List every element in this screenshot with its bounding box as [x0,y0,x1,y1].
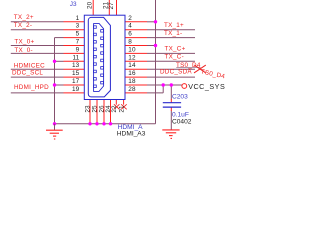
junction left ground corner [53,122,56,125]
wire pin5 to ground bus [55,37,64,39]
wire capacitor bottom to ground [170,111,172,130]
no-connect X on stub 22 [114,104,120,109]
wire pin28 horizontal [147,92,163,94]
wire TX_1- pin6 [147,37,195,39]
pin stub 14 [125,68,147,70]
wire TX_2+ pin1 [11,21,64,23]
pin stub 22 bottom no-connect [115,100,117,105]
svg-text:17: 17 [72,78,80,85]
svg-text:6: 6 [128,31,132,38]
HDMI receptacle inner slot [94,24,104,92]
pin stub 9 [64,52,85,54]
junction pin28 riser on VCC row [162,83,165,86]
pin stub 27 top [116,0,118,15]
wire pin2 to shield bus [147,21,156,23]
junction bottom stub 25 [95,122,98,125]
svg-text:TX_1-: TX_1- [164,30,182,37]
HDMI receptacle outer outline [88,17,110,97]
svg-text:18: 18 [128,78,136,85]
pin stub 20 top [92,0,94,15]
wire TX_C+ pin10 [147,52,195,54]
wire HDMI_HPD pin19 [11,92,64,94]
svg-text:C203: C203 [172,94,188,101]
capacitor C203 plates [163,102,181,104]
junction bottom stub 24 [109,122,112,125]
pin stub 10 [125,52,147,54]
svg-text:0.1uF: 0.1uF [172,111,189,118]
svg-text:16: 16 [128,70,136,77]
svg-text:TX_0-: TX_0- [14,47,32,54]
svg-text:2: 2 [128,15,132,22]
HDMI contact teeth right column [101,30,104,84]
wire TX_0- pin9 [11,52,64,54]
pin stub 12 [125,60,147,62]
wire TX_2- pin3 [11,29,64,31]
junction pin8 shield bus [154,44,157,47]
svg-text:1: 1 [76,15,80,22]
svg-text:7: 7 [76,39,80,46]
wire right shield bus vertical [155,0,157,124]
wire DDC_SDA pin16 [147,76,195,78]
pin stub 15 [64,76,85,78]
svg-text:13: 13 [72,62,80,69]
wire pin11 to ground bus [55,60,64,62]
wire pin8 to shield bus [147,45,156,47]
pin stub 24 bottom [110,100,112,124]
crossed-out marker X [194,65,206,73]
wire TX_C- pin12 [147,60,195,62]
junction bottom stub 26 [102,122,105,125]
pin stub 1 [64,21,85,23]
svg-text:15: 15 [72,70,80,77]
svg-text:28: 28 [128,86,136,93]
svg-text:20: 20 [86,1,93,9]
svg-text:23: 23 [85,105,92,113]
svg-text:TX_1+: TX_1+ [164,22,184,29]
pin stub 8 [125,45,147,47]
pin stub 23 bottom [89,100,91,124]
pin stub 17 [64,84,85,86]
pin stub 5 [64,37,85,39]
wire pin17 to ground bus [55,84,64,86]
svg-text:TX_2-: TX_2- [14,22,32,29]
svg-text:27: 27 [108,2,115,10]
svg-text:10: 10 [128,46,136,53]
wire left ground stem [54,124,56,130]
wire bottom ground horizontal [55,123,156,125]
pin stub 26 bottom [103,100,105,124]
svg-text:HDMI_HPD: HDMI_HPD [14,84,49,91]
junction pin11 bus [53,60,56,63]
pin stub 3 [64,29,85,31]
connector J3 body [84,15,125,99]
HDMI contact teeth left column [94,26,97,88]
svg-text:TX_0+: TX_0+ [14,39,34,46]
junction bottom stub 23 [88,122,91,125]
svg-text:TX_C+: TX_C+ [165,46,186,53]
svg-text:5: 5 [76,31,80,38]
wire left ground bus vertical [54,38,56,124]
wire TX_1+ pin4 [147,29,195,31]
svg-text:14: 14 [128,62,136,69]
wire HDMICEC pin13 [11,68,64,70]
svg-text:DDC_SCL: DDC_SCL [12,69,43,76]
capacitor C203 leads [170,99,172,103]
svg-text:4: 4 [128,23,132,30]
no-connect X on last bottom stub [121,104,127,109]
pin stub 2 [125,21,147,23]
pin stub 21 top [108,0,110,15]
ground symbol left [46,130,63,139]
wire TX_0+ pin7 [11,45,64,47]
wire pin28 riser to VCC row [162,85,164,93]
wire capacitor top lead [170,85,172,100]
pin stub 4 [125,29,147,31]
pin stub 13 [64,68,85,70]
pin stub bottom right no-connect [123,100,125,105]
svg-text:12: 12 [128,54,136,61]
svg-text:C0402: C0402 [172,118,192,125]
svg-text:3: 3 [76,23,80,30]
svg-text:25: 25 [92,105,99,113]
VCC_SYS power symbol circle [182,84,187,89]
svg-text:8: 8 [128,39,132,46]
svg-text:J3: J3 [70,1,77,8]
junction capacitor lead on VCC row [170,83,173,86]
pin stub 11 [64,60,85,62]
svg-text:22: 22 [111,105,118,113]
strikethrough on TS0_D4 label [176,66,200,68]
wire TS0_D4 pin14 [147,68,195,70]
pin stub 16 [125,76,147,78]
pin stub 28 [125,92,147,94]
junction pin2 shield bus [154,20,157,23]
svg-text:9: 9 [76,46,80,53]
svg-text:HDMI_A3: HDMI_A3 [117,130,146,137]
svg-text:TX_C-: TX_C- [165,54,184,61]
svg-text:VCC_SYS: VCC_SYS [188,82,225,91]
svg-text:19: 19 [72,86,80,93]
pin stub 6 [125,37,147,39]
pin stub 19 [64,92,85,94]
svg-text:DDC_SDA: DDC_SDA [160,68,192,75]
junction pin17 bus [53,83,56,86]
wire VCC pin18 [147,84,182,86]
svg-text:21: 21 [118,105,125,113]
wire DDC_SCL pin15 [11,76,64,78]
svg-text:11: 11 [72,54,79,61]
pin stub 7 [64,45,85,47]
svg-text:TX_2+: TX_2+ [14,14,34,21]
pin stub 25 bottom [96,100,98,124]
ground symbol right [162,130,179,139]
pin stub 18 [125,84,147,86]
